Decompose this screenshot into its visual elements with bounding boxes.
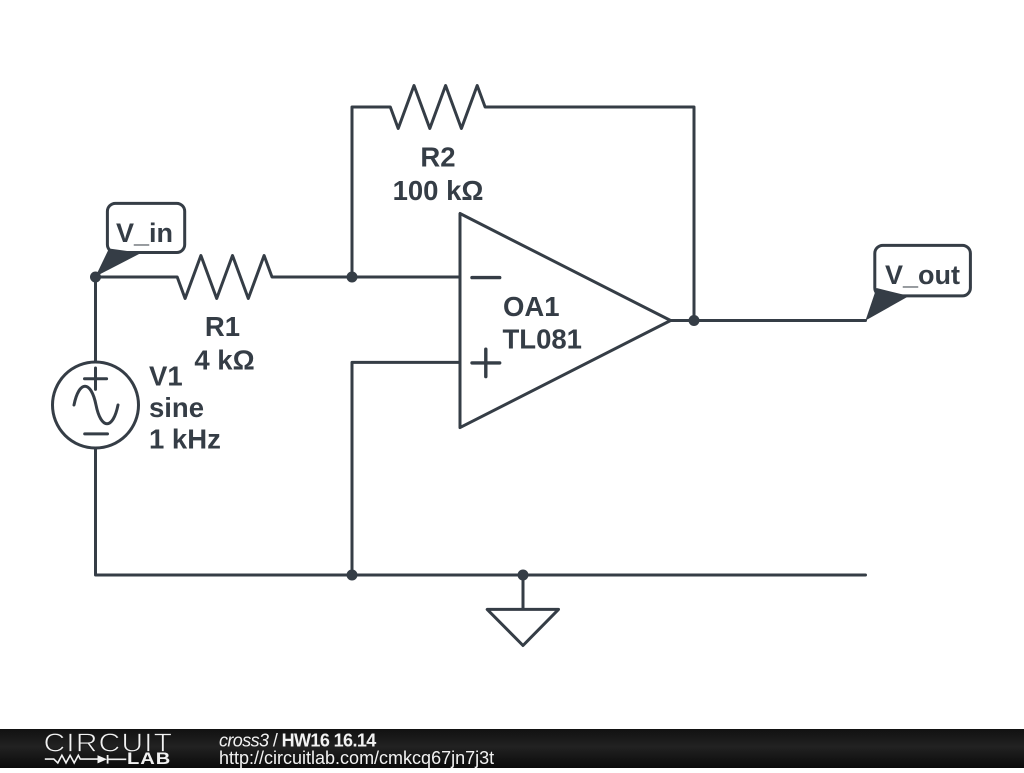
svg-text:V_in: V_in [116, 218, 173, 248]
svg-text:TL081: TL081 [503, 323, 582, 354]
svg-text:V1: V1 [149, 360, 183, 391]
svg-text:http://circuitlab.com/cmkcq67j: http://circuitlab.com/cmkcq67jn7j3t [219, 748, 494, 768]
svg-text:sine: sine [149, 392, 204, 423]
svg-text:R2: R2 [420, 142, 455, 173]
svg-text:V_out: V_out [885, 260, 960, 290]
svg-text:LAB: LAB [127, 749, 171, 768]
svg-text:100 kΩ: 100 kΩ [393, 175, 484, 206]
svg-text:R1: R1 [205, 311, 240, 342]
svg-text:1 kHz: 1 kHz [149, 424, 221, 455]
svg-text:OA1: OA1 [503, 291, 560, 322]
svg-text:4 kΩ: 4 kΩ [194, 344, 254, 375]
